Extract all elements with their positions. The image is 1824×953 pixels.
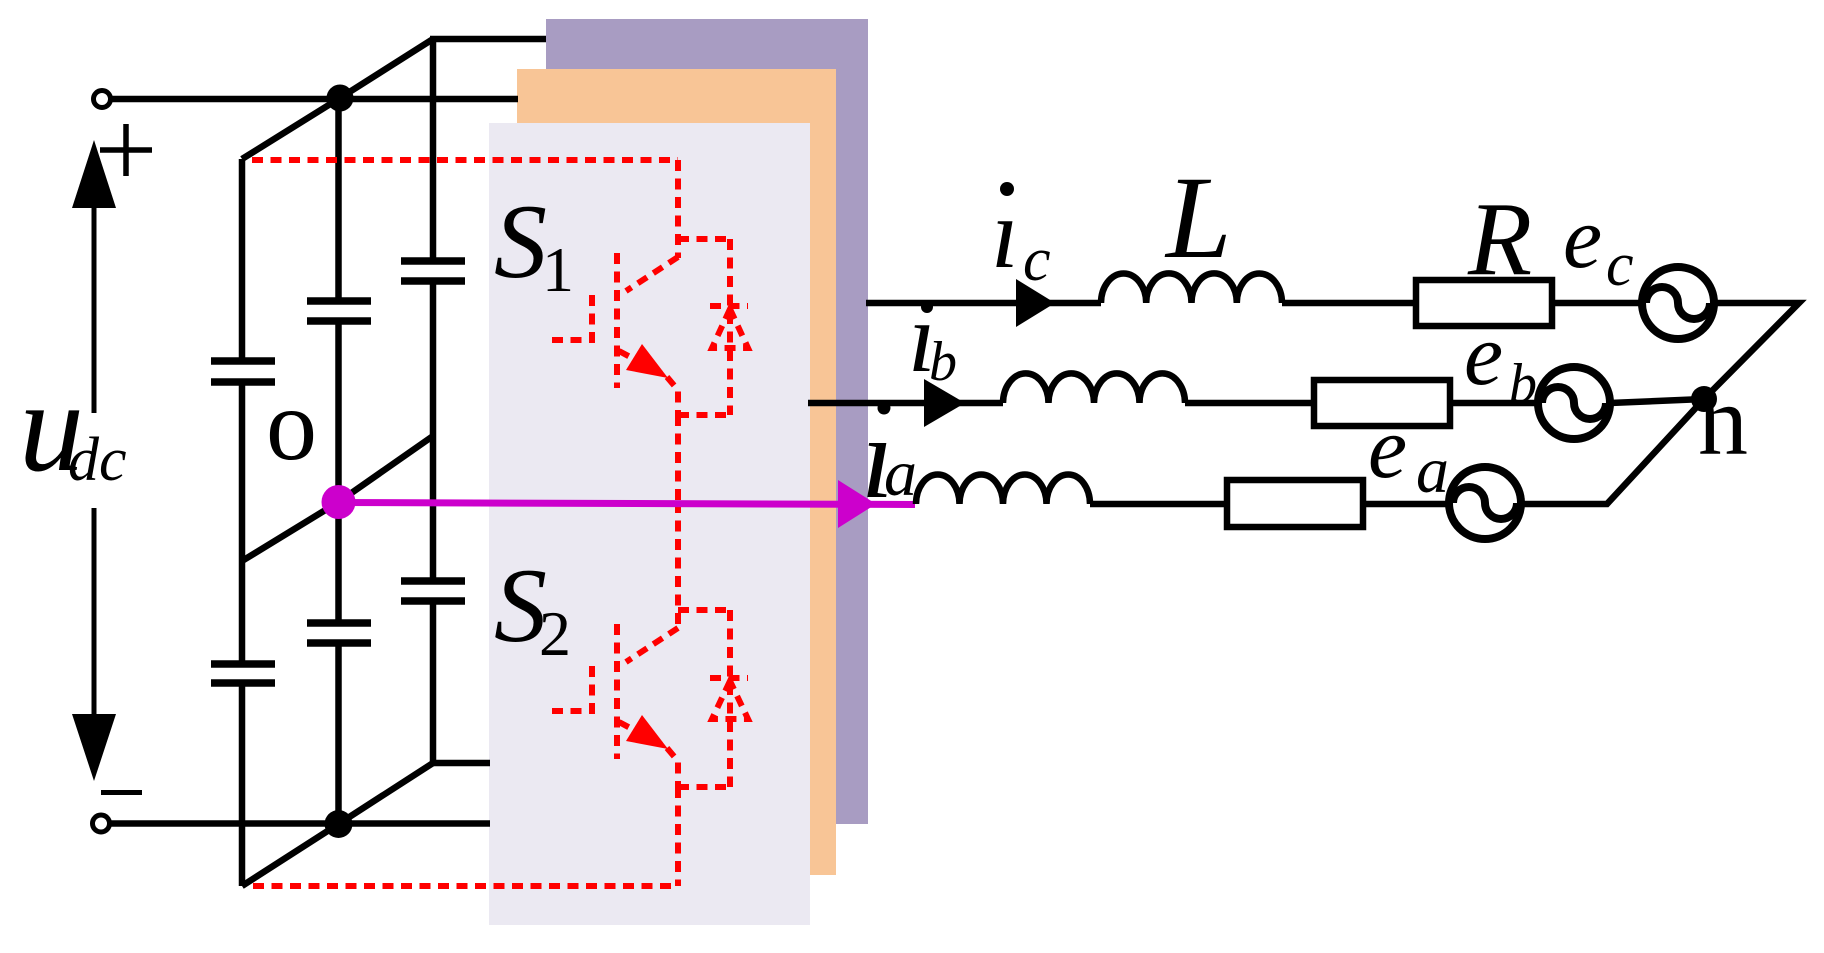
node n dot	[1691, 386, 1717, 412]
svg-text:L: L	[1164, 152, 1232, 283]
plus sign	[100, 124, 152, 176]
capacitor C middle upper	[307, 301, 371, 321]
wire: red S1 emitter out	[667, 377, 678, 415]
wire: phase a line 2	[1090, 501, 1227, 508]
transistor Q1 body bar	[614, 253, 620, 388]
wire: phase c line	[866, 300, 1101, 307]
wire: red S2 emitter out	[667, 748, 678, 787]
svg-text:c: c	[1023, 226, 1051, 294]
transistor Q1 collector slant	[626, 257, 678, 291]
wire: top middle rail (+ bus)	[111, 96, 518, 103]
diode D2 bar	[710, 675, 748, 681]
wire: red S2 emitter down	[675, 787, 681, 886]
transistor Q2 gate lead	[552, 663, 592, 711]
wire: phase c line 2	[1282, 300, 1416, 307]
diode D2 triangle	[712, 681, 748, 719]
transistor Q1 emitter slant	[619, 351, 664, 375]
wire: phase b line	[808, 400, 1003, 407]
udc arrow (double headed)	[92, 205, 97, 413]
transistor Q2 body bar	[614, 624, 620, 759]
wire: phase b line 2	[1185, 400, 1314, 407]
svg-text:2: 2	[539, 598, 571, 669]
node o dot	[322, 485, 356, 519]
wire: bottom back rail	[433, 760, 490, 767]
wire: bottom rail (- bus)	[111, 820, 490, 827]
magenta arrow head	[838, 480, 876, 528]
node: - terminal	[93, 815, 110, 832]
svg-text:a: a	[1416, 434, 1449, 507]
arrow i_c	[1016, 279, 1055, 327]
wire: phase b line 3	[1450, 400, 1538, 407]
wire: top depth diagonal	[242, 39, 433, 159]
AC source e_b	[1538, 367, 1610, 439]
diode D2 cathode line	[727, 610, 733, 787]
wire: red S1 bottom bridge	[678, 412, 732, 418]
inductor L phase a	[916, 475, 1090, 505]
transistor Q2 collector slant	[626, 628, 678, 662]
wire: front leg vertical	[239, 159, 246, 361]
transistor Q1 gate lead	[552, 292, 592, 340]
wire: phase b to n	[1610, 399, 1704, 403]
wire: top back rail	[430, 36, 546, 43]
node: top junction dot	[327, 85, 354, 112]
wire: back leg vertical	[430, 39, 437, 261]
capacitor C back lower	[401, 581, 465, 601]
wire: red S1-S2 link	[675, 415, 681, 502]
svg-text:c: c	[1606, 231, 1634, 299]
wire: phase a line 3	[1363, 501, 1449, 508]
svg-text:n: n	[1698, 365, 1748, 476]
diode D1 bar	[710, 303, 748, 309]
svg-text:1: 1	[542, 234, 574, 305]
svg-text:R: R	[1467, 180, 1532, 297]
phase-a panel (front, lavender)	[489, 123, 810, 925]
capacitor C front lower	[211, 664, 275, 683]
diode D1 triangle	[712, 309, 748, 348]
arrow i_b	[924, 379, 965, 427]
wire: phase c line 4 and diagonal to n	[1704, 303, 1799, 399]
svg-text:e: e	[1563, 190, 1602, 287]
node: + terminal	[94, 91, 111, 108]
resistor R phase c	[1416, 280, 1552, 326]
wire: middle leg vertical	[335, 99, 342, 301]
resistor R phase a	[1227, 480, 1363, 527]
svg-text:a: a	[884, 437, 917, 510]
svg-text:o: o	[266, 369, 317, 482]
wire: red S2 top bridge	[678, 607, 732, 613]
svg-text:S: S	[494, 183, 547, 300]
wire: phase c line 3	[1552, 300, 1642, 307]
transistor Q2 emitter arrow	[626, 715, 668, 749]
AC source e_a	[1449, 467, 1521, 539]
node: bottom junction dot	[325, 810, 353, 838]
inductor L phase c	[1101, 273, 1282, 303]
svg-text:e: e	[1464, 307, 1503, 404]
wire: red S1 collector feed	[675, 160, 681, 258]
capacitor C front upper	[211, 361, 275, 382]
transistor Q1 emitter arrow	[626, 344, 668, 378]
minus sign	[101, 790, 142, 795]
diode D1 cathode line	[727, 239, 733, 415]
wire: red S1 top bridge	[678, 236, 732, 242]
wire: red S2 bottom bridge	[678, 784, 732, 790]
capacitor C back upper	[401, 261, 465, 281]
resistor R phase b	[1314, 380, 1450, 426]
red dashed hidden leg circuit	[252, 160, 748, 886]
wire: bottom depth diagonal	[242, 763, 433, 886]
svg-text:e: e	[1368, 400, 1407, 497]
svg-text:b: b	[929, 331, 957, 393]
wire: o depth diagonal	[242, 436, 433, 561]
svg-text:dc: dc	[68, 426, 127, 494]
wire: phase a line 4 and diagonal to n	[1521, 399, 1704, 504]
AC source e_c	[1642, 267, 1714, 339]
wire: red S2 collector feed	[675, 502, 681, 629]
svg-text:b: b	[1509, 353, 1537, 415]
inductor L phase b	[1003, 373, 1185, 403]
transistor Q2 emitter slant	[619, 722, 664, 746]
magenta o-line	[339, 503, 916, 505]
phase-c panel (back, purple)	[546, 19, 868, 824]
wire: red top rail	[252, 157, 678, 163]
capacitor C middle lower	[307, 623, 371, 643]
phase-b panel (middle, orange)	[517, 69, 836, 875]
wire: red bottom rail	[253, 883, 678, 889]
